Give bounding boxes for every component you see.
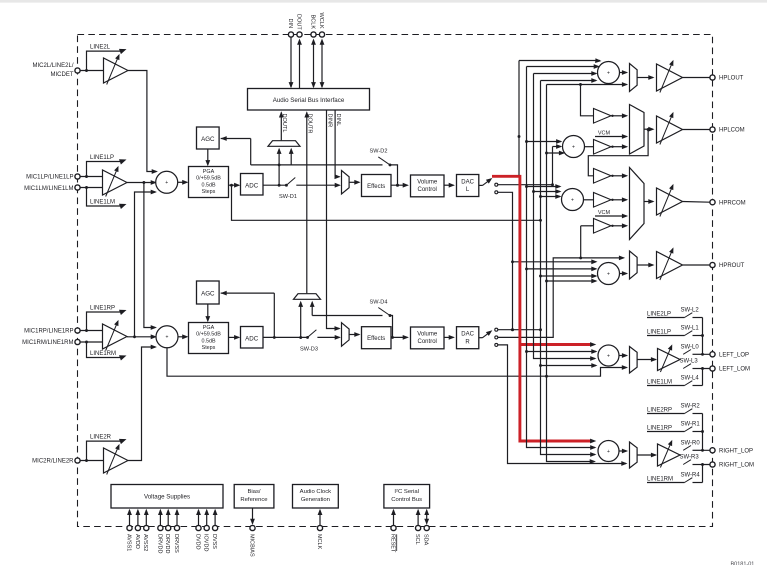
svg-text:Generation: Generation xyxy=(301,497,330,503)
amp LEFT_LO driver xyxy=(658,349,681,371)
svg-text:SW-R4: SW-R4 xyxy=(681,473,701,479)
pin DVDD xyxy=(198,510,200,525)
wire PGA-R to ADC-R xyxy=(229,336,239,338)
net LINE1RP tap xyxy=(87,312,121,331)
svg-text:Audio Serial Bus Interface: Audio Serial Bus Interface xyxy=(273,97,345,104)
switch SW-R1 xyxy=(647,431,685,433)
wire bus v1 DAC-L to HPLOUT xyxy=(518,61,520,176)
mux HPRCOM select xyxy=(630,168,645,240)
audio serial bus interface U-ASBI xyxy=(248,89,370,111)
svg-text:SW-L3: SW-L3 xyxy=(680,359,699,365)
svg-text:MIC1RM/LINE1RM: MIC1RM/LINE1RM xyxy=(22,340,73,346)
wire bus v2 tap LEFT_LO xyxy=(527,351,596,353)
wire buffer out xyxy=(611,146,627,148)
svg-text:PGA: PGA xyxy=(203,325,215,331)
buffer HPLCOM follower xyxy=(594,140,612,155)
wire DAC-L contact2 crossover xyxy=(498,192,513,329)
svg-text:DINR: DINR xyxy=(326,114,332,128)
wire DAC-R contact2 to HPROUT mux xyxy=(498,258,624,338)
svg-text:Effects: Effects xyxy=(367,184,385,190)
wire AGC-R control to PGA-R xyxy=(207,304,209,321)
pin RIGHT_LOP xyxy=(710,448,715,453)
svg-text:DVDD: DVDD xyxy=(194,534,200,550)
svg-text:AVDD: AVDD xyxy=(134,534,140,549)
dac DAC R xyxy=(457,327,479,349)
svg-text:+: + xyxy=(607,353,610,359)
svg-text:SW-D3: SW-D3 xyxy=(300,346,318,352)
svg-text:0/+59.5dB: 0/+59.5dB xyxy=(196,332,221,338)
pin LEFT_LOP xyxy=(710,352,715,357)
svg-text:+: + xyxy=(607,70,610,76)
mux RIGHT_LO select xyxy=(630,442,638,468)
svg-text:+: + xyxy=(607,271,610,277)
svg-text:+: + xyxy=(572,144,575,150)
switch SW-L1 xyxy=(647,335,685,337)
wire PGA-L to ADC-L xyxy=(229,184,239,186)
wire HPLCOM mux out to HPR follower xyxy=(588,130,648,176)
svg-text:Reference: Reference xyxy=(240,497,268,503)
svg-text:Volume: Volume xyxy=(417,331,438,337)
svg-text:+: + xyxy=(165,180,168,186)
svg-text:VCM: VCM xyxy=(598,210,611,216)
wire bus v5 to HPLOUT mux xyxy=(547,84,627,86)
svg-text:I²C Serial: I²C Serial xyxy=(394,489,419,495)
mux right DAC-path select xyxy=(342,323,350,347)
pin AVSS1 xyxy=(129,510,131,525)
svg-text:AGC: AGC xyxy=(201,136,215,143)
svg-text:MIC1LM/LINE1LM: MIC1LM/LINE1LM xyxy=(24,186,73,192)
amp LINE2R xyxy=(104,448,129,473)
switch SW-R3 xyxy=(683,460,691,465)
wire mixer-R to PGA-R xyxy=(178,336,187,338)
net DINR xyxy=(327,110,340,328)
svg-text:LINE1LM: LINE1LM xyxy=(90,199,115,205)
wire bus v2 tap HPROUT xyxy=(527,268,596,270)
wire to HPLOUT pin xyxy=(683,77,710,79)
wire DAC-L contact1 to HPLCOM tap xyxy=(498,184,553,186)
svg-text:SW-L0: SW-L0 xyxy=(681,344,700,350)
svg-text:Audio Clock: Audio Clock xyxy=(300,489,331,495)
amp LINE1L xyxy=(103,170,128,195)
amp LINE1R xyxy=(103,324,128,349)
svg-text:IOVDD: IOVDD xyxy=(203,534,209,551)
wire bus v2 tap HPLCOM xyxy=(527,141,561,143)
mux DOUTL source select xyxy=(268,141,300,147)
wire AGC-L input xyxy=(221,138,251,140)
pin HPLCOM xyxy=(710,127,715,132)
mux HPLCOM select xyxy=(630,105,645,155)
net LINE2R tap xyxy=(87,441,121,460)
pin HPLOUT xyxy=(710,75,715,80)
svg-text:Control: Control xyxy=(418,187,437,193)
svg-text:LINE2L: LINE2L xyxy=(90,45,111,51)
block Audio Clock Generation xyxy=(293,485,339,509)
svg-text:LINE2LP: LINE2LP xyxy=(647,312,671,318)
block I2C Serial Control Bus xyxy=(384,485,430,509)
switch SW-D1 xyxy=(286,178,295,186)
svg-text:Control Bus: Control Bus xyxy=(391,497,422,503)
wire bus v3 tap HPRCOM xyxy=(534,191,560,193)
block Bias/Reference xyxy=(234,485,274,509)
mux left DAC-path select xyxy=(342,171,350,195)
wire ADC-L to DOUTL mux xyxy=(278,149,280,185)
pin DRVDD xyxy=(159,510,161,525)
pin WCLK xyxy=(321,42,323,88)
svg-text:Voltage Supplies: Voltage Supplies xyxy=(144,494,190,501)
wire cross left-amp to right mixer xyxy=(144,183,155,328)
svg-text:SW-D4: SW-D4 xyxy=(370,299,388,305)
wire to HPRCOM pin xyxy=(683,201,710,204)
svg-text:+: + xyxy=(166,335,169,341)
svg-text:Steps: Steps xyxy=(202,345,216,351)
block Effects L xyxy=(362,175,392,197)
svg-text:DVSS: DVSS xyxy=(211,534,217,549)
summing node right record mixer xyxy=(156,326,178,348)
svg-text:Control: Control xyxy=(418,339,437,345)
svg-text:SDA: SDA xyxy=(423,534,429,546)
svg-text:SW-R3: SW-R3 xyxy=(680,455,700,461)
wire PGA-L bypass feeder xyxy=(232,185,541,220)
wire mux to LEFT_LO driver xyxy=(637,359,656,361)
wire DAC-R contact3 to right lineout mux xyxy=(498,345,626,464)
wire RIGHT_LOM bus xyxy=(703,465,710,483)
wire HPLOUT mixer to mux xyxy=(620,72,627,74)
wire buffer out xyxy=(611,225,627,227)
op-amp AGC L xyxy=(197,127,220,149)
wire ADC-L out xyxy=(263,184,286,186)
svg-text:LEFT_LOP: LEFT_LOP xyxy=(719,353,749,359)
op-amp AGC R xyxy=(197,281,220,304)
net DOUTL xyxy=(280,113,282,141)
svg-text:MIC1LP/LINE1LP: MIC1LP/LINE1LP xyxy=(26,175,73,181)
svg-text:ADC: ADC xyxy=(245,335,259,342)
svg-text:LINE1LM: LINE1LM xyxy=(647,380,672,386)
switch SW-D3 xyxy=(308,330,317,338)
wire AGC-R input xyxy=(221,292,275,294)
switch SW-L2 xyxy=(647,317,685,319)
wire bus v4 tap HPRCOM xyxy=(541,196,560,198)
svg-text:LINE1RM: LINE1RM xyxy=(647,477,673,483)
summing node HPROUT mixer xyxy=(598,263,620,285)
svg-text:MIC1RP/LINE1RP: MIC1RP/LINE1RP xyxy=(24,329,73,335)
svg-text:0.5dB: 0.5dB xyxy=(201,338,215,344)
wire bus v4 tap HPROUT xyxy=(541,275,596,277)
switch DAC-L route xyxy=(479,184,483,186)
wire VolCtl-R to DAC-R xyxy=(444,336,453,338)
mux HPROUT select xyxy=(630,251,638,279)
switch SW-R2 xyxy=(647,413,685,415)
wire buffer out xyxy=(611,199,627,201)
block Effects R xyxy=(362,327,392,349)
switch SW-L3 xyxy=(683,364,691,369)
svg-text:DRVDD: DRVDD xyxy=(164,534,170,553)
wire LINE1L amp out to mixer xyxy=(127,182,155,184)
wire mux to HPLOUT driver xyxy=(637,77,653,79)
wire highlighted DAC-L playback route (red) xyxy=(492,176,592,441)
pin MCLK xyxy=(319,510,321,525)
pga PGA-L xyxy=(189,167,229,198)
svg-text:MICBIAS: MICBIAS xyxy=(248,534,254,557)
wire bus v5 xyxy=(547,85,595,462)
amp HPRCOM driver xyxy=(657,188,683,215)
svg-text:DOUTL: DOUTL xyxy=(281,114,287,133)
svg-text:SW-D1: SW-D1 xyxy=(279,194,297,200)
summing node left record mixer xyxy=(156,171,178,193)
svg-text:RESET: RESET xyxy=(389,534,395,553)
svg-text:0/+59.5dB: 0/+59.5dB xyxy=(196,176,221,182)
pin RESET xyxy=(393,510,395,525)
summing node HPLCOM mixer xyxy=(563,136,585,158)
amp HPLCOM driver xyxy=(657,116,683,143)
wire LEFT_LOM bus xyxy=(703,369,710,386)
wire cross right-amp to left mixer xyxy=(135,192,156,337)
svg-text:SCL: SCL xyxy=(414,534,420,545)
svg-text:HPLCOM: HPLCOM xyxy=(719,128,745,134)
svg-text:SW-R0: SW-R0 xyxy=(681,440,701,446)
wire bus v2 xyxy=(527,67,595,448)
svg-text:BCLK: BCLK xyxy=(309,15,315,30)
svg-text:DIN: DIN xyxy=(287,19,293,29)
switch SW-D2 xyxy=(378,157,390,165)
svg-text:DOUTR: DOUTR xyxy=(307,114,313,134)
pin DIN xyxy=(290,37,292,87)
pin DOUT xyxy=(299,42,301,89)
svg-text:0.5dB: 0.5dB xyxy=(201,182,215,188)
svg-text:MIC2R/LINE2R: MIC2R/LINE2R xyxy=(32,459,74,465)
buffer HPR follower top xyxy=(594,169,612,184)
net LINE1RM tap xyxy=(87,342,121,358)
net DINL xyxy=(335,110,339,176)
pin BCLK xyxy=(313,42,315,88)
pin AVSS2 xyxy=(145,510,147,525)
summing node HPLOUT mixer xyxy=(598,62,620,84)
svg-text:Volume: Volume xyxy=(417,179,438,185)
pin HPROUT xyxy=(710,262,715,267)
pin RIGHT_LOM xyxy=(710,462,715,467)
pin SDA xyxy=(426,510,428,523)
amp LINE2L xyxy=(104,58,129,83)
wire ADC-R to DOUTR mux xyxy=(300,302,302,337)
svg-text:WCLK: WCLK xyxy=(318,13,324,29)
pin DVSS xyxy=(214,510,216,525)
mux HPLOUT select xyxy=(630,64,638,92)
block Volume Control L xyxy=(411,175,445,197)
switch SW-L4 xyxy=(647,385,685,387)
summing node LEFT_LO mixer xyxy=(598,345,619,366)
pin LEFT_LOM xyxy=(710,366,715,371)
svg-text:AGC: AGC xyxy=(201,290,215,297)
wire VolCtl-L to DAC-L xyxy=(444,184,453,186)
svg-text:SW-D2: SW-D2 xyxy=(370,149,388,155)
buffer HPRCOM follower xyxy=(594,193,612,208)
pin MICBIAS xyxy=(252,508,254,523)
svg-text:VCM: VCM xyxy=(598,130,611,136)
svg-text:Effects: Effects xyxy=(367,336,385,342)
svg-text:MCLK: MCLK xyxy=(316,534,322,550)
switch SW-R4 xyxy=(647,482,685,484)
wire LINE2R amp out to right mixer xyxy=(128,347,155,461)
wire DAC-R contact1 to HP tap xyxy=(498,329,541,331)
wire mux to RIGHT_LO driver xyxy=(637,454,656,456)
wire mux-R to Effects-R xyxy=(349,334,359,336)
switch SW-L0 xyxy=(683,350,691,355)
svg-text:AVSS2: AVSS2 xyxy=(142,534,148,551)
net ADC-L monitor line xyxy=(251,164,383,166)
amp HPROUT driver xyxy=(657,252,683,279)
wire ADC-R out xyxy=(263,336,308,338)
svg-text:SW-R1: SW-R1 xyxy=(681,422,701,428)
mux LEFT_LO select xyxy=(630,347,638,374)
wire bus v5 tap HPROUT xyxy=(545,280,548,283)
pin DRVDD xyxy=(167,510,169,525)
switch DAC-R route xyxy=(479,337,483,339)
svg-text:LINE1RP: LINE1RP xyxy=(647,426,672,432)
block Volume Control R xyxy=(411,327,445,349)
svg-text:Bias/: Bias/ xyxy=(247,489,260,495)
dac DAC L xyxy=(457,175,479,197)
svg-text:LINE1LP: LINE1LP xyxy=(90,155,114,161)
wire buffer out xyxy=(611,175,627,177)
svg-text:DRVDD: DRVDD xyxy=(156,534,162,553)
wire Effects-L out xyxy=(391,184,407,186)
svg-text:SW-L1: SW-L1 xyxy=(681,326,700,332)
svg-text:R: R xyxy=(465,339,470,345)
wire RIGHT_LO mixer to mux xyxy=(619,450,626,452)
wire mux to HPROUT driver xyxy=(637,264,653,266)
svg-text:+: + xyxy=(607,449,610,455)
svg-text:SW-L4: SW-L4 xyxy=(681,376,700,382)
svg-text:+: + xyxy=(571,197,574,203)
svg-text:HPLOUT: HPLOUT xyxy=(719,76,744,82)
wire AGC-L control to PGA-L xyxy=(207,149,209,165)
svg-text:ADC: ADC xyxy=(245,182,259,189)
net ADC-R monitor line with SW-D4 xyxy=(312,315,382,317)
pin DRVSS xyxy=(176,510,178,525)
svg-text:DAC: DAC xyxy=(461,179,474,185)
wire bus v6 DAC-L contact1 to HPLCOM xyxy=(552,147,554,185)
pin AVDD xyxy=(137,510,139,525)
wire v512 tap HPROUT xyxy=(513,261,596,263)
svg-text:LINE1RP: LINE1RP xyxy=(90,305,115,311)
wire bus v4 xyxy=(541,81,595,455)
wire mixer-L to PGA-L xyxy=(178,181,187,183)
wire to HPROUT pin xyxy=(683,264,710,266)
svg-text:SW-L2: SW-L2 xyxy=(681,308,700,314)
mux DOUTR source select xyxy=(294,294,321,300)
svg-text:SW-R2: SW-R2 xyxy=(681,404,701,410)
wire Effects-R out xyxy=(391,336,407,338)
adc ADC-L xyxy=(241,174,264,196)
wire LEFT_LO mixer to mux xyxy=(619,355,626,357)
wire cross-feed to DOUTL mux xyxy=(290,149,292,165)
svg-text:LINE1RM: LINE1RM xyxy=(90,351,116,357)
svg-text:DINL: DINL xyxy=(335,114,341,127)
wire bus v3 xyxy=(534,74,595,359)
svg-text:LINE2R: LINE2R xyxy=(90,435,112,441)
pin HPRCOM xyxy=(710,200,715,205)
svg-text:DAC: DAC xyxy=(461,332,474,338)
wire mux-L to Effects-L xyxy=(349,181,359,183)
wire bus v4 tap LEFT_LO xyxy=(541,365,596,367)
svg-text:RIGHT_LOM: RIGHT_LOM xyxy=(719,463,754,469)
switch SW-R0 xyxy=(683,446,691,451)
svg-text:HPROUT: HPROUT xyxy=(719,263,745,269)
wire to HPLCOM pin xyxy=(683,129,710,131)
svg-text:MICDET: MICDET xyxy=(51,72,74,78)
wire mixer-R bypass feeder xyxy=(167,348,627,376)
wire mux to HPLCOM driver xyxy=(644,128,653,130)
pga PGA-R xyxy=(189,323,229,354)
svg-text:B0181-01: B0181-01 xyxy=(731,562,755,565)
svg-text:DRVSS: DRVSS xyxy=(173,534,179,553)
adc ADC-R xyxy=(241,327,264,349)
wire RIGHT_LOP bus xyxy=(703,414,710,451)
wire HPLCOM mixer to buffer xyxy=(585,146,594,148)
summing node RIGHT_LO mixer xyxy=(598,441,619,462)
svg-text:AVSS1: AVSS1 xyxy=(125,534,131,551)
svg-text:Steps: Steps xyxy=(202,189,216,195)
amp RIGHT_LO driver xyxy=(658,444,681,466)
wire bus v2 tap HPRCOM xyxy=(527,186,560,188)
svg-text:DOUT: DOUT xyxy=(295,14,301,30)
amp HPLOUT driver xyxy=(657,64,683,91)
wire HPROUT mixer to mux xyxy=(620,273,627,275)
wire bus v5 tap HPLCOM low xyxy=(545,152,548,155)
svg-text:HPRCOM: HPRCOM xyxy=(719,200,746,206)
chip outline (dashed border) xyxy=(78,35,713,527)
buffer HPL follower xyxy=(594,109,612,124)
wire HPLOUT sum to VCM buffer xyxy=(581,85,594,116)
block Voltage Supplies xyxy=(111,485,223,509)
svg-text:PGA: PGA xyxy=(203,169,215,175)
summing node HPRCOM mixer xyxy=(562,189,584,211)
pin SCL xyxy=(417,510,419,525)
wire LEFT_LOP bus xyxy=(703,318,710,355)
svg-text:LEFT_LOM: LEFT_LOM xyxy=(719,367,750,373)
svg-text:RIGHT_LOP: RIGHT_LOP xyxy=(719,449,753,455)
wire cross-feed to DOUTR mux xyxy=(311,302,313,315)
svg-text:MIC2L/LINE2L/: MIC2L/LINE2L/ xyxy=(32,63,73,69)
wire buffer to HPLCOM mux xyxy=(611,115,627,117)
wire LINE1R amp out to mixer xyxy=(127,336,155,338)
wire mux to HPRCOM driver xyxy=(644,201,653,203)
svg-text:LINE2RP: LINE2RP xyxy=(647,408,672,414)
pin IOVDD xyxy=(206,510,208,525)
buffer HPR follower bottom xyxy=(580,226,582,258)
net LINE1LP tap xyxy=(87,162,121,177)
wire HPRCOM mixer to buffer xyxy=(584,199,594,201)
net DOUTR xyxy=(306,113,308,294)
net LINE2L tap xyxy=(87,51,121,70)
wire LINE2L amp out to left record mixer xyxy=(128,71,156,172)
svg-text:LINE1LP: LINE1LP xyxy=(647,330,671,336)
net LINE1LM tap xyxy=(87,188,121,207)
